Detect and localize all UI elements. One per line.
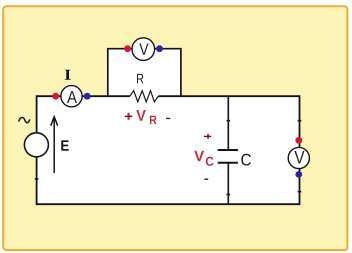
wire: V-R voltmeter bracket bbox=[108, 49, 181, 100]
wire end tick on capacitor branch (bottom) bbox=[227, 194, 231, 196]
V1 terminal dot blue bbox=[156, 45, 163, 52]
V1 terminal dot red bbox=[124, 45, 131, 52]
wire end tick on capacitor branch (top) bbox=[227, 120, 231, 122]
label I bbox=[65, 70, 71, 80]
V2 terminal dot red bbox=[295, 137, 302, 144]
label +VC- (voltage across C) bbox=[194, 134, 213, 180]
label +VR- (voltage across R) bbox=[125, 110, 171, 124]
label R (resistor value label) bbox=[137, 74, 143, 84]
AC sine symbol bbox=[19, 118, 30, 123]
wire end tick on source branch bbox=[35, 178, 39, 180]
ammeter A bbox=[61, 86, 82, 107]
AC source E bbox=[24, 133, 48, 157]
voltmeter V1 (across R) bbox=[132, 38, 155, 61]
voltmeter V2 (across C) bbox=[288, 147, 309, 168]
wire end tick on right voltmeter branch (bottom) bbox=[298, 191, 302, 193]
wire end tick on right voltmeter branch (top) bbox=[298, 120, 302, 122]
label E bbox=[61, 140, 68, 150]
label C (capacitor value label) bbox=[241, 154, 251, 166]
capacitor C bbox=[218, 150, 238, 163]
wire: capacitor branch bbox=[227, 96, 229, 204]
resistor R bbox=[130, 91, 159, 102]
current arrow E bbox=[51, 117, 58, 173]
ammeter terminal dot red bbox=[52, 93, 59, 100]
ammeter terminal dot blue bbox=[84, 93, 91, 100]
V2 terminal dot blue bbox=[295, 171, 302, 178]
wire: main circuit loop bbox=[37, 96, 300, 204]
